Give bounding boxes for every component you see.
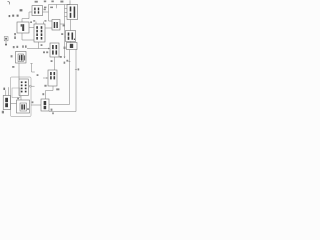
arrow into speaker [43,77,47,79]
telephone big box [11,77,32,117]
figure number mark top-left [8,1,10,4]
wire main box to box23 [45,27,52,29]
wire box2 to main [29,27,34,29]
label 26 speck near speaker path [42,93,44,95]
link box9 down to keypad [18,63,20,79]
wire staircase node2 to oscillator [22,12,32,22]
audio line across [27,48,49,50]
bus stubs to rf box [65,8,68,10]
rf top box [67,5,78,20]
label 17 speck [60,1,63,3]
speaker box [48,70,57,86]
label 8 specks left column [14,33,16,39]
link rf top to mid [70,20,72,31]
stub below top wire [56,5,58,9]
label 2 speck on link [32,101,34,103]
wire top horizontal [49,4,71,6]
wire riser vertical [48,5,50,22]
box 5 [3,96,10,110]
box 9 handset [16,52,27,64]
link receiver to speaker [54,57,56,70]
label speck bottom-left of speaker [44,85,46,87]
label 10 speck [37,74,39,76]
dial box with nested rect [17,100,30,113]
stub above box5 [8,87,10,95]
receiver box [50,43,59,57]
label 16 speck [63,25,65,27]
bottom horizontal A [49,104,70,106]
wire box23 to bus [60,23,65,25]
oscillator box 21 [32,6,43,16]
keypad box [19,79,28,96]
bus vertical [64,5,66,58]
small mic component top-left of box9 [4,37,8,41]
antenna stub top right [69,0,71,4]
label 12 leader text specks upper-left [9,9,23,17]
wire box2 bottom to main lower input [22,33,34,40]
label 7 speck [30,21,32,23]
line B down from 15 [75,50,77,112]
mid hooks wiring [32,64,35,73]
bottom horizontal B [49,111,76,113]
label specks under top wire [44,7,53,9]
box 23 small [52,20,60,31]
box 15 [67,43,78,50]
main box top stubs [35,22,37,24]
link keypad to dial box [20,96,22,100]
box 2 (left middle) [17,22,29,33]
main box bottom stub [38,42,40,49]
speaker out path [46,86,54,99]
label 19 speck right of oscillator [44,9,46,11]
rf mid box [66,31,76,42]
wire oscillator right to riser [43,11,49,13]
speck above audio line [41,44,43,46]
inner mid faint box [12,88,20,98]
label 5 below [2,111,4,114]
main transmitter box [34,24,45,42]
line A down from 15 [69,50,71,105]
box 4 [41,99,49,111]
wire riser to box23 [49,20,53,22]
link rf mid to 15 [70,42,72,43]
link big box to box4 [31,104,41,106]
link box5 to dial box [11,103,17,105]
JJ specks above B9 [13,45,48,53]
label 21 speck above oscillator [35,1,38,3]
label 4 specks [51,109,54,115]
